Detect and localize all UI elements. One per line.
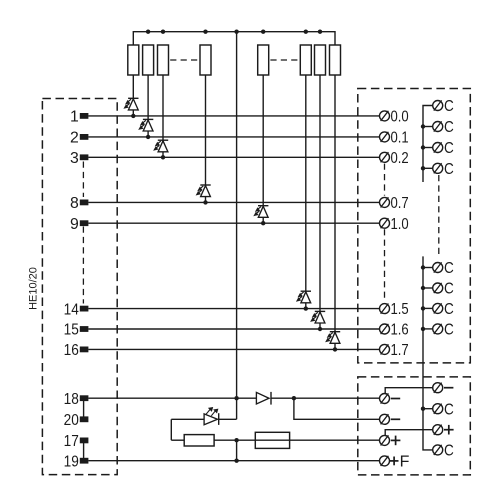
terminal - (right column) [433,383,454,393]
resistor R5 [258,45,269,75]
resistor R6 [300,45,311,75]
svg-text:C: C [444,401,454,418]
wire: dashed continuation C bus [438,175,440,256]
pin 15 [64,322,89,339]
terminal C (right column) [433,401,454,418]
svg-text:1.5: 1.5 [391,301,409,318]
wire: C bus group 2 [423,256,433,450]
connector HE10/20 outline [42,99,117,475]
terminal C [433,260,454,277]
wire: dashed link R5-R6 [270,59,299,61]
wire: line 18 (pin 18 to diode) [88,397,256,399]
svg-text:3: 3 [70,150,79,167]
pin 20 [64,412,89,429]
LED indicator 1.5 [296,75,311,311]
junction: bus / resistor R6 lead [304,30,308,34]
resistor R4 [200,45,211,75]
junction: C bus [421,145,425,149]
svg-text:0.2: 0.2 [391,150,409,167]
svg-text:1.6: 1.6 [391,322,409,339]
junction: bus / resistor R5 lead [261,30,265,34]
svg-text:19: 19 [64,453,79,470]
svg-text:1.0: 1.0 [391,216,410,233]
wire: diode output to second - terminal [294,398,380,419]
wire: line 3 to terminal [88,156,379,158]
wire: - terminal riser to right column [385,388,433,394]
svg-text:C: C [444,322,454,339]
junction: C bus [421,124,425,128]
LED indicator 0.2 [153,75,168,160]
terminal C [433,281,454,298]
wire: to resistor R9 [171,439,184,441]
svg-text:17: 17 [64,433,79,450]
terminal 1.6 [380,322,409,339]
diode D1 (polarity protection) [256,392,271,405]
resistor R7 [315,45,326,75]
junction: centre rail / line 18 [234,396,238,400]
resistor R3 [158,45,169,75]
svg-text:1.7: 1.7 [391,342,409,359]
wire: C bus stub to right C [423,408,433,410]
pin 16 [64,342,89,359]
pin 18 [64,391,89,408]
svg-text:C: C [444,301,454,318]
LED indicator 1.0 [253,75,268,225]
junction: bus / resistor R4 lead [203,30,207,34]
terminal block outline (inputs) [358,89,471,363]
pin 1 [70,109,88,126]
terminal - (supply minus) [380,393,401,403]
wire: line 9 to terminal [88,222,379,224]
fuse F1 [255,432,289,448]
LED indicator 0.1 [138,75,153,139]
svg-text:0.0: 0.0 [391,109,410,126]
svg-text:C: C [444,161,454,178]
junction: C bus [421,286,425,290]
svg-text:20: 20 [64,412,79,429]
terminal 0.2 [380,150,409,167]
LED power indicator [171,407,236,425]
LED indicator 1.7 [325,75,340,352]
LED indicator 1.6 [310,75,325,331]
junction: bus / resistor R3 lead [161,30,165,34]
terminal 0.7 [380,195,409,212]
terminal C [433,119,454,136]
wire: C bus stub [423,287,433,289]
svg-text:HE10/20: HE10/20 [28,267,40,310]
svg-text:8: 8 [70,195,79,212]
wire: C bus stub [423,267,433,269]
pin 19 [64,453,89,470]
svg-text:F: F [400,454,410,471]
junction: bus / resistor R2 lead [146,30,150,34]
terminal 0.0 [380,109,410,126]
pin 14 [64,301,89,318]
junction: bus / centre rail [234,30,238,34]
junction: C bus [421,166,425,170]
terminal C [433,301,454,318]
svg-text:C: C [444,98,454,115]
svg-text:9: 9 [70,216,79,233]
junction: C bus / C terminal [421,407,425,411]
svg-text:C: C [444,281,454,298]
wire: pin 18 - pin 20 tie [83,398,85,419]
svg-text:15: 15 [64,322,79,339]
terminal block outline (supply) [358,377,471,475]
pin 3 [70,150,88,167]
junction: bus / resistor R7 lead [318,30,322,34]
pin 8 [70,195,88,212]
svg-text:C: C [444,140,454,157]
svg-text:14: 14 [64,301,79,318]
wire: C bus stub [423,147,433,149]
wire: dashed link R3-R4 [170,59,199,61]
wire: line 1 to terminal [88,115,379,117]
terminal C [433,98,454,115]
junction: diode output node [292,396,296,400]
terminal + (right column) [433,425,454,435]
wire: C bus stub [423,126,433,128]
svg-text:0.1: 0.1 [391,130,409,147]
wire: dashed continuation terminals 0.2-0.7 [384,164,386,196]
pin 17 [64,433,89,450]
wire: line 2 to terminal [88,136,379,138]
wire: C bus stub [423,307,433,309]
wire: line 16 to terminal [88,348,379,350]
wire: line 14 to terminal [88,308,379,310]
terminal 1.0 [380,216,410,233]
pin 9 [70,216,88,233]
LED indicator 0.0 [123,75,138,118]
wire: centre rail (resistor node to line 19) [236,440,238,461]
wire: line 18 (diode to - terminal) [271,397,380,399]
terminal 0.1 [380,130,409,147]
terminal 1.5 [380,301,409,318]
pin 2 [70,130,88,147]
svg-text:C: C [444,443,454,460]
wire: dashed continuation terminals 1.0-1.5 [384,229,386,302]
wire: dashed continuation pins 3-8 [82,162,84,198]
svg-text:1: 1 [70,109,79,126]
svg-text:2: 2 [70,130,79,147]
terminal C [433,161,454,178]
junction: centre rail / line 19 [234,459,238,463]
wire: C bus stub [423,328,433,330]
wire: pin 17 - pin 19 tie [83,440,85,460]
terminal C (right column, bus end) [433,443,454,460]
resistor R9 (LED series) [184,435,214,446]
resistor R8 [330,45,341,75]
junction: C bus [421,265,425,269]
svg-text:C: C [444,260,454,277]
resistor R2 [143,45,154,75]
terminal C [433,140,454,157]
wire: line 15 to terminal [88,328,379,330]
resistor R1 [128,45,139,75]
wire: line 19 (0V) [88,460,379,462]
svg-text:16: 16 [64,342,79,359]
terminal 1.7 [380,342,409,359]
junction: C bus [421,306,425,310]
wire: resistor R9 to + terminal (through fuse) [214,439,379,441]
terminal C [433,322,454,339]
wire: line 8 to terminal [88,201,379,203]
terminal - (second minus) [380,414,401,424]
svg-text:C: C [444,119,454,136]
svg-text:0.7: 0.7 [391,195,409,212]
wire: LED/resistor left tie [170,419,172,440]
wire: + terminal riser to right column [385,430,433,436]
wire: centre rail (bus to LED cathode) [236,32,238,420]
junction: centre rail / resistor-fuse wire [234,438,238,442]
terminal + (supply plus) [380,435,401,445]
svg-text:18: 18 [64,391,79,408]
junction: C bus [421,327,425,331]
LED indicator 0.7 [196,75,211,205]
wire: C bus group 1 [423,106,433,183]
terminal +F (fused plus) [380,454,410,471]
wire: dashed continuation pins 9-14 [82,227,84,304]
wire: C bus stub [423,167,433,169]
wire: top supply bus [133,32,335,45]
